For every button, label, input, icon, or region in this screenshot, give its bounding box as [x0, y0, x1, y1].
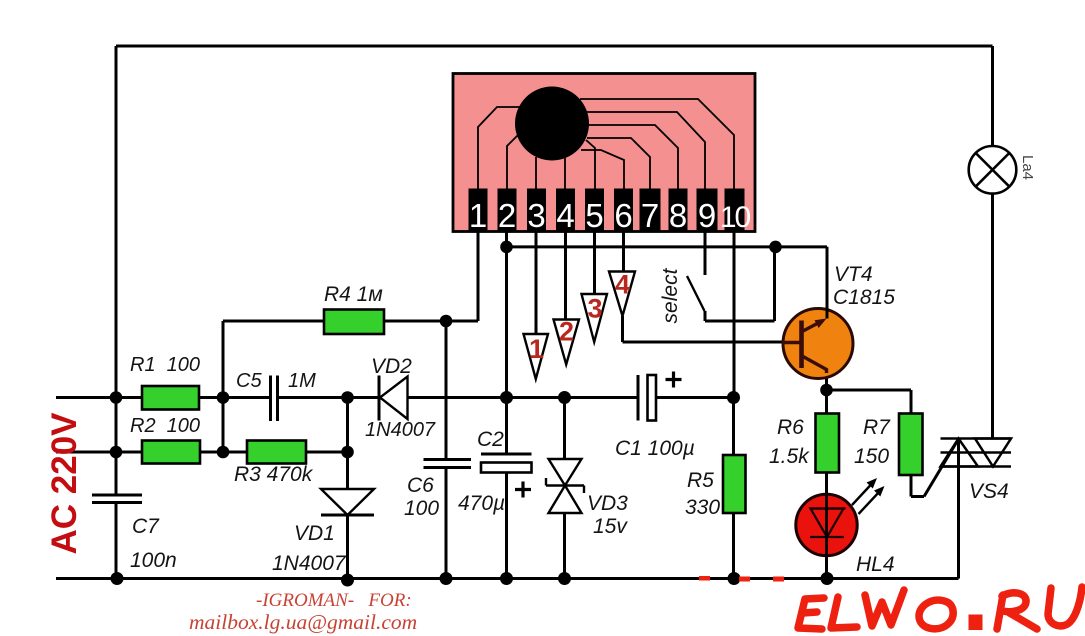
- svg-text:C1 100µ: C1 100µ: [615, 437, 695, 460]
- svg-text:R6: R6: [777, 416, 804, 439]
- svg-text:VD3: VD3: [587, 492, 628, 515]
- svg-text:4: 4: [556, 197, 574, 234]
- svg-text:1: 1: [529, 334, 544, 364]
- svg-text:AC 220V: AC 220V: [45, 412, 84, 555]
- svg-text:470µ: 470µ: [458, 492, 505, 515]
- svg-text:8: 8: [669, 197, 687, 234]
- svg-text:6: 6: [614, 197, 632, 234]
- svg-text:3: 3: [587, 294, 602, 324]
- svg-text:2: 2: [498, 197, 516, 234]
- svg-text:4: 4: [615, 270, 630, 300]
- svg-text:R2 100: R2 100: [130, 415, 200, 437]
- svg-text:1N4007: 1N4007: [365, 419, 436, 441]
- svg-text:VS4: VS4: [969, 480, 1009, 503]
- svg-text:R4 1м: R4 1м: [324, 283, 383, 306]
- svg-text:100n: 100n: [130, 549, 177, 572]
- svg-text:3: 3: [527, 197, 545, 234]
- svg-text:100: 100: [404, 497, 439, 520]
- svg-text:R3 470k: R3 470k: [234, 463, 314, 486]
- svg-text:-IGROMAN- FOR:: -IGROMAN- FOR:: [256, 590, 412, 611]
- svg-text:VD2: VD2: [371, 355, 412, 378]
- svg-text:C5: C5: [236, 370, 262, 392]
- svg-text:La4: La4: [1019, 155, 1036, 180]
- svg-text:7: 7: [641, 197, 659, 234]
- svg-text:1M: 1M: [288, 370, 316, 392]
- svg-text:10: 10: [720, 201, 751, 234]
- svg-text:C7: C7: [132, 515, 160, 538]
- svg-text:1.5k: 1.5k: [769, 445, 810, 468]
- svg-text:1: 1: [469, 197, 487, 234]
- svg-text:9: 9: [698, 197, 716, 234]
- svg-text:R1 100: R1 100: [130, 354, 200, 376]
- svg-text:15v: 15v: [593, 515, 628, 538]
- svg-text:1N4007: 1N4007: [272, 552, 347, 575]
- svg-text:150: 150: [854, 445, 889, 468]
- svg-text:VT4: VT4: [834, 263, 873, 286]
- svg-text:select: select: [659, 267, 682, 323]
- svg-text:R5: R5: [687, 469, 714, 492]
- svg-text:VD1: VD1: [294, 522, 335, 545]
- svg-text:R7: R7: [863, 416, 891, 439]
- svg-text:2: 2: [559, 317, 574, 347]
- svg-text:mailbox.lg.ua@gmail.com: mailbox.lg.ua@gmail.com: [189, 610, 417, 634]
- svg-text:330: 330: [685, 496, 720, 519]
- svg-text:C1815: C1815: [833, 286, 895, 309]
- svg-text:C6: C6: [407, 474, 434, 497]
- svg-text:C2: C2: [477, 428, 504, 451]
- svg-text:5: 5: [585, 197, 603, 234]
- svg-text:HL4: HL4: [856, 553, 895, 576]
